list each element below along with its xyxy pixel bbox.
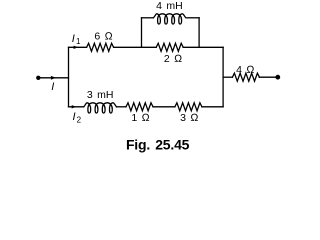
svg-text:4 Ω: 4 Ω — [236, 64, 254, 76]
resistor 1 Ohm — [126, 103, 153, 111]
right terminal dot — [275, 75, 280, 80]
wire: 4 Ohm to right terminal — [259, 76, 277, 78]
svg-text:2: 2 — [77, 116, 82, 125]
wire: 2 Ohm to node B — [183, 46, 223, 48]
svg-text:4 mH: 4 mH — [156, 0, 183, 12]
wire: 3 Ohm to node B — [202, 106, 223, 108]
wire: 6 Ohm to 2 Ohm — [114, 46, 157, 48]
wire: top branch to 6 Ohm — [69, 46, 87, 48]
svg-text:I: I — [73, 111, 76, 123]
wire: node B to 4 Ohm — [223, 76, 232, 78]
wire: parallel box top left segment — [142, 17, 154, 19]
left terminal dot — [36, 76, 40, 80]
wire: bottom branch to 3 mH — [69, 106, 84, 108]
resistor 4 Ohm — [232, 73, 259, 81]
current arrow I2 — [72, 105, 77, 108]
inductor 3 mH — [84, 103, 117, 113]
wire: left terminal to node A — [38, 77, 68, 79]
svg-text:6 Ω: 6 Ω — [94, 30, 112, 42]
svg-text:1: 1 — [76, 37, 81, 46]
resistor 2 Ohm — [156, 43, 183, 51]
svg-text:I: I — [72, 33, 75, 45]
svg-text:3 Ω: 3 Ω — [180, 112, 198, 124]
resistor 6 Ohm — [87, 43, 114, 51]
svg-text:2 Ω: 2 Ω — [164, 53, 182, 65]
svg-text:Fig. 25.45: Fig. 25.45 — [126, 137, 190, 153]
current arrow I1 — [74, 46, 79, 49]
current arrow I — [51, 76, 56, 80]
svg-text:3 mH: 3 mH — [87, 89, 114, 101]
wire: parallel box right vertical — [198, 18, 200, 48]
wire: parallel box left vertical — [141, 18, 143, 48]
wire: parallel box top right segment — [187, 17, 199, 19]
node A: left junction vertical — [68, 47, 70, 107]
wire: 3 mH to 1 Ohm — [116, 106, 126, 108]
svg-text:I: I — [51, 81, 54, 93]
resistor 3 Ohm — [175, 103, 202, 111]
inductor 4 mH — [153, 14, 186, 24]
svg-text:1 Ω: 1 Ω — [131, 112, 149, 124]
wire: 1 Ohm to 3 Ohm — [153, 106, 175, 108]
node B: right junction vertical — [222, 47, 224, 107]
